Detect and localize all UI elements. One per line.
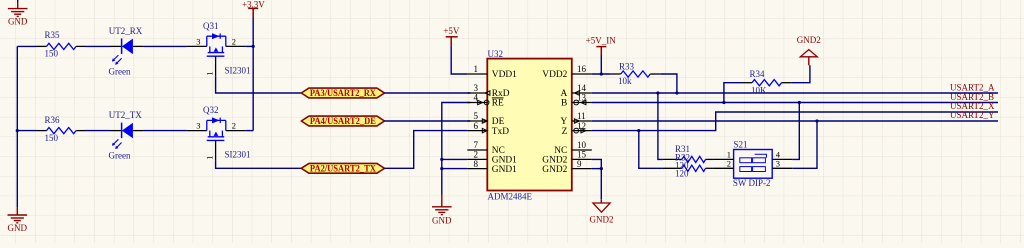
svg-text:GND: GND — [432, 215, 452, 225]
U32 TxD input arrow — [482, 128, 487, 132]
junction GND1 pin8 — [440, 167, 443, 170]
svg-text:2: 2 — [727, 158, 731, 168]
U32 left pin 5 (DE) — [467, 111, 504, 127]
svg-text:Green: Green — [109, 151, 131, 161]
S21 pin 3 — [772, 167, 792, 169]
svg-text:2: 2 — [232, 36, 236, 46]
U32 B bubble + input arrow — [574, 100, 579, 105]
wire: Q31 gate down to PA3/USART2_RX port — [216, 76, 302, 93]
resistor R31 120 — [663, 156, 714, 162]
svg-text:+5V: +5V — [443, 26, 460, 36]
wire: Q32 gate down to PA2/USART2_TX port — [216, 160, 302, 168]
wire: Q31 source to +3.3V vertical — [246, 45, 253, 47]
LED UT2_TX (Green) — [109, 110, 144, 161]
U32 A input arrow — [574, 91, 579, 95]
svg-text:SW DIP-2: SW DIP-2 — [733, 178, 771, 188]
junction S21.3 / Y row — [815, 119, 818, 122]
wire: R33 down to A row — [660, 74, 677, 93]
transistor Q31 SI2301 — [187, 21, 251, 76]
wire: U32 GND2 pin15 to vertical — [592, 159, 602, 199]
svg-text:1: 1 — [204, 71, 214, 75]
U32 RxD output arrow — [485, 91, 490, 95]
svg-text:3: 3 — [776, 158, 780, 168]
U32 right pin 14 (A) — [561, 83, 592, 99]
resistor R35 150 — [37, 30, 86, 59]
U32 left pin 2 (GND1) — [467, 150, 517, 166]
pin 3 (drain) — [187, 45, 207, 47]
svg-text:8: 8 — [474, 159, 479, 169]
wire: stub to top-left GND — [17, 0, 19, 2]
U32 left pin 3 (RxD) — [467, 83, 509, 99]
junction +3.3V / row1 — [252, 45, 255, 48]
U32 left pin 6 (TxD) — [467, 121, 509, 137]
svg-text:GND2: GND2 — [542, 165, 567, 175]
svg-text:TxD: TxD — [492, 127, 509, 137]
wire: R35 to LED UT2_RX — [85, 45, 111, 47]
svg-text:PA2/USART2_TX: PA2/USART2_TX — [310, 163, 376, 173]
wire: U32 GND1 pin8 — [442, 168, 468, 170]
svg-text:6: 6 — [474, 121, 479, 131]
svg-text:1: 1 — [474, 64, 479, 74]
svg-text:UT2_TX: UT2_TX — [109, 110, 142, 120]
svg-text:ADM2484E: ADM2484E — [488, 192, 533, 202]
wire: Z row down to R32 — [639, 131, 663, 169]
U32 right pin 15 (GND2) — [542, 150, 592, 166]
svg-text:GND2: GND2 — [797, 35, 821, 45]
svg-text:VDD1: VDD1 — [492, 70, 517, 80]
U32 right pin 12 (Z) — [562, 121, 592, 137]
svg-text:3: 3 — [196, 36, 200, 46]
LED UT2_RX (Green) — [109, 26, 144, 77]
svg-text:2: 2 — [232, 121, 236, 131]
svg-text:16: 16 — [577, 64, 587, 74]
wire: PA2/USART2_TX port up to U32 TxD — [385, 131, 468, 169]
wire: R36 to LED UT2_TX — [85, 130, 111, 132]
U32 DE input arrow — [482, 119, 487, 123]
switch S21 SW DIP-2 — [714, 140, 793, 188]
wire: PA4/USART2_DE port to U32 DE — [385, 120, 471, 122]
wire: LED UT2_RX to Q31 drain — [143, 45, 186, 47]
junction GND1 pin2 — [440, 158, 443, 161]
wire: Y row (USART2_Y) — [592, 120, 998, 122]
svg-text:Z: Z — [562, 127, 568, 137]
svg-text:150: 150 — [45, 133, 59, 143]
svg-text:1: 1 — [204, 156, 214, 160]
U32 left pin 4 (RE) — [467, 93, 504, 109]
svg-text:PA3/USART2_RX: PA3/USART2_RX — [310, 88, 376, 98]
resistor R33 10k — [611, 62, 661, 86]
wire: left vertical bus (row1 corner down to bottom-left ground) — [16, 46, 18, 207]
svg-text:150: 150 — [45, 49, 59, 59]
svg-text:GND: GND — [8, 223, 28, 233]
power +5V — [446, 37, 458, 46]
svg-text:R35: R35 — [45, 30, 61, 40]
pin 3 (drain) — [187, 130, 207, 132]
port PA4/USART2_DE — [301, 116, 384, 126]
wire: A row down to R31 — [658, 93, 663, 159]
port PA3/USART2_RX — [301, 88, 384, 98]
U32 Y output arrow — [574, 119, 579, 123]
svg-text:USART2_Y: USART2_Y — [950, 110, 995, 120]
svg-text:9: 9 — [577, 159, 582, 169]
svg-text:GND: GND — [8, 17, 28, 27]
svg-text:120: 120 — [675, 169, 689, 179]
power +5V_IN — [596, 47, 606, 55]
pin 1 (gate) — [215, 140, 217, 160]
wire: Q32 source to +3.3V vertical — [246, 130, 253, 132]
power +3.3V — [248, 8, 258, 17]
wire: B row up to R34 — [724, 83, 742, 103]
svg-text:Q32: Q32 — [203, 105, 219, 115]
junction Z row / R32 drop — [637, 129, 640, 132]
resistor R36 150 — [37, 115, 86, 143]
svg-text:SI2301: SI2301 — [225, 150, 251, 160]
junction A row / R31 drop — [656, 91, 659, 94]
svg-text:+5V_IN: +5V_IN — [586, 36, 617, 46]
junction GND2 pin9 — [600, 167, 603, 170]
wire: A row (USART2_A) — [592, 92, 998, 94]
resistor R34 10K — [742, 69, 792, 96]
port PA2/USART2_TX — [301, 163, 384, 173]
svg-text:VDD2: VDD2 — [542, 70, 567, 80]
wire: B row (USART2_B) — [592, 102, 998, 104]
IC U32 ADM2484E (RS-485 transceiver) body — [487, 59, 572, 191]
junction R34 / B row — [722, 101, 725, 104]
ground GND (bottom-left) — [8, 207, 28, 223]
svg-text:3: 3 — [474, 83, 479, 93]
ground GND (top-left) — [8, 2, 28, 16]
pin 1 (gate) — [215, 56, 217, 76]
ground GND2 (bottom) — [593, 199, 610, 212]
svg-text:+3.3V: +3.3V — [242, 0, 265, 9]
svg-text:GND2: GND2 — [590, 215, 614, 225]
svg-text:R36: R36 — [45, 115, 61, 125]
S21 pin 4 — [772, 158, 792, 160]
junction S21.4 / B row — [798, 101, 801, 104]
wire: row2 horizontal from left vertical to R36 — [17, 130, 36, 132]
wire: R34 up to GND2 — [792, 65, 810, 82]
S21 pin 1 — [714, 158, 734, 160]
wire: Z row jog up to X row (USART2_X) — [592, 112, 998, 131]
svg-text:S21: S21 — [734, 140, 748, 150]
junction R33 / A row — [675, 91, 678, 94]
svg-text:Y: Y — [561, 117, 568, 127]
svg-text:RE: RE — [492, 99, 504, 109]
svg-text:Green: Green — [109, 67, 131, 77]
junction at left vertical / row2 — [16, 129, 19, 132]
pin 2 (source) — [226, 45, 246, 47]
U32 right pin 9 (GND2) — [542, 159, 592, 175]
svg-text:DE: DE — [492, 117, 505, 127]
svg-text:B: B — [561, 99, 567, 109]
svg-text:Q31: Q31 — [203, 21, 219, 31]
svg-text:GND1: GND1 — [492, 165, 517, 175]
svg-text:U32: U32 — [488, 49, 504, 59]
wire: S21 pin 3 up to Y row — [792, 121, 817, 168]
wire: +5V down to U32 VDD1 — [451, 46, 467, 74]
U32 left pin 7 (NC) — [467, 140, 505, 156]
junction +5V_IN / VDD2 — [600, 72, 603, 75]
transistor Q32 SI2301 — [187, 105, 251, 160]
svg-text:A: A — [561, 89, 568, 99]
svg-text:10K: 10K — [751, 86, 767, 96]
svg-text:R34: R34 — [750, 69, 766, 79]
U32 right pin 16 (VDD2) — [542, 64, 592, 80]
svg-text:PA4/USART2_DE: PA4/USART2_DE — [310, 116, 376, 126]
svg-text:R33: R33 — [619, 62, 635, 72]
pin 2 (source) — [226, 130, 246, 132]
svg-text:SI2301: SI2301 — [225, 66, 251, 76]
wire: LED UT2_TX to Q32 drain — [143, 130, 186, 132]
ground GND2 (top) — [800, 50, 817, 66]
U32 right pin 13 (B) — [561, 93, 592, 109]
U32 right pin 11 (Y) — [561, 111, 592, 127]
wire: PA3/USART2_RX port to U32 RxD — [385, 92, 471, 94]
U32 RE input arrow + bubble — [478, 100, 483, 104]
resistor R32 120 — [663, 165, 714, 171]
U32 left pin 1 (VDD1) — [467, 64, 517, 80]
wire: +5V_IN down to VDD2 row — [600, 55, 602, 74]
ground GND (below U32) — [432, 195, 452, 215]
wire: U32 GND2 pin9 — [592, 168, 602, 170]
svg-text:3: 3 — [196, 121, 200, 131]
wire: U32 GND1 pin2 — [442, 158, 468, 160]
svg-text:10k: 10k — [618, 76, 632, 86]
S21 pin 2 — [714, 167, 734, 169]
wire: +3.3V vertical down to Q32 source — [252, 17, 254, 131]
wire: U32 RE down to ground (with GND1 pins) — [442, 103, 471, 195]
wire: U32 VDD2 to R33 — [592, 73, 611, 75]
svg-text:11: 11 — [577, 111, 586, 121]
U32 right pin 10 (NC) — [554, 140, 592, 156]
U32 left pin 8 (GND1) — [467, 159, 517, 175]
U32 Z bubble + output arrow — [574, 128, 579, 133]
wire: S21 pin 4 up to B row — [792, 103, 799, 160]
svg-text:5: 5 — [474, 111, 479, 121]
svg-text:UT2_RX: UT2_RX — [109, 26, 143, 36]
wire: row1 horizontal from corner to R35 — [17, 45, 36, 47]
